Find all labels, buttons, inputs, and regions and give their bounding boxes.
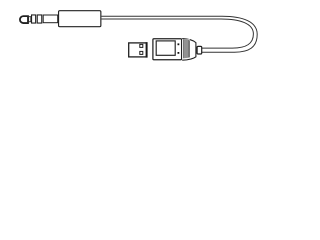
USB dot 2	[178, 52, 180, 54]
USB body	[153, 39, 182, 60]
strain relief ridge block	[183, 39, 190, 58]
plug shaft	[43, 15, 58, 23]
ring 2	[37, 15, 42, 23]
audio plug tip	[20, 16, 28, 23]
USB tab hole 2	[140, 51, 143, 54]
strain relief outline	[182, 39, 196, 61]
USB tab right edge (thick)	[146, 42, 148, 57]
cable boot nub	[197, 46, 202, 54]
strain relief ridges	[184, 39, 190, 58]
ring 1	[32, 15, 36, 23]
cable outer boundary	[102, 16, 258, 52]
USB tab hole 1	[140, 44, 143, 47]
USB dot 1	[178, 43, 180, 45]
tip neck	[29, 17, 31, 22]
cable inner boundary	[102, 19, 254, 48]
USB metal tab	[129, 43, 147, 57]
jack body	[59, 11, 101, 27]
USB label window	[156, 41, 175, 55]
